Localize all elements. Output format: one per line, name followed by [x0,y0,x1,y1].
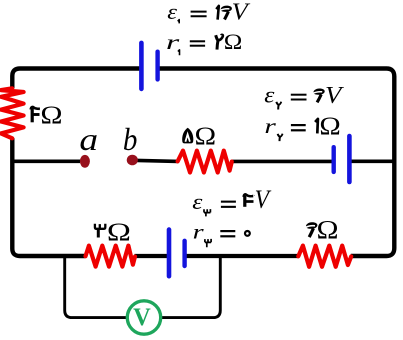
subscript 2 [278,134,280,141]
digit 3 [95,224,105,229]
digit 1 bold [315,119,318,133]
svg-text:V: V [133,304,151,331]
resistor R 4ohm (left vertical zigzag) [1,88,24,138]
label 5ohm [182,122,216,150]
svg-text:Ω: Ω [107,218,131,246]
battery E1 short plate [155,52,159,80]
label 4ohm [31,101,63,130]
svg-text:r: r [193,221,205,243]
digit 6 bold [221,6,232,12]
wire left side below 4ohm to bottom, to 3ohm [12,138,85,256]
voltmeter loop wire left [65,256,128,318]
wire top-left segment to battery E1 [12,69,141,89]
svg-text:Ω: Ω [319,111,340,139]
label epsilon2 = 6V [264,81,344,110]
svg-text:Ω: Ω [317,216,339,245]
digit 4 bold [243,196,246,207]
wire middle branch from left edge to node a [12,160,80,164]
wire bottom between 3ohm and battery E3 [135,254,170,258]
equals [190,40,205,42]
label 3ohm [95,218,131,246]
svg-text:Ω: Ω [194,122,216,150]
epsilon3 [192,191,203,215]
digit 0 ring [245,231,250,236]
epsilon1 [167,0,178,24]
r italic [264,114,277,138]
voltmeter loop wire right [161,256,221,318]
voltmeter circle [127,301,160,334]
voltmeter V letter [133,304,151,331]
svg-text:ε: ε [192,191,203,215]
svg-text:V: V [255,186,272,215]
svg-text:V: V [232,0,251,25]
node b label [123,122,138,158]
battery E1 long plate [139,43,144,89]
r italic [166,31,180,54]
epsilon2 [264,82,274,108]
svg-text:b: b [123,122,138,158]
equals [221,201,236,203]
label r3 = 0 [193,221,250,247]
subscript 3 [205,239,211,247]
r italic [193,221,205,243]
wire node b to 5ohm [137,160,178,161]
battery E2 long plate [347,136,352,182]
wire bottom between battery E3 and 6ohm [185,254,299,258]
svg-text:r: r [264,114,277,138]
battery E3 short plate [182,241,186,266]
Omega [194,122,216,150]
V italic [255,186,272,215]
subscript 2 [276,102,278,110]
node a label [79,122,98,157]
digit 1 bold [216,6,219,20]
equals [220,230,235,232]
Omega [40,101,62,130]
V italic [232,0,251,25]
digit 6 [306,222,317,229]
subscript 3 [204,209,210,216]
digit 6 bold [313,88,324,94]
subscript 1 [178,20,180,24]
svg-text:a: a [79,122,98,157]
svg-text:Ω: Ω [40,101,62,130]
equals [291,94,307,96]
equals [191,11,207,13]
label 6ohm [305,216,338,245]
battery E2 short plate [332,147,336,172]
digit 5 [182,128,193,144]
equals [291,124,306,126]
label epsilon1 = 16V [167,0,250,25]
wire 5ohm to battery E2 [231,160,333,164]
resistor 5ohm (middle horizontal zigzag) [178,151,232,173]
svg-text:ε: ε [167,0,178,24]
Omega [107,218,131,246]
resistor 6ohm (bottom right zigzag) [298,246,351,267]
node b dot [127,155,138,166]
wire battery E2 to right edge [349,160,394,164]
node a dot [80,155,90,168]
svg-text:Ω: Ω [224,30,243,55]
label epsilon3 = 4V [192,186,271,217]
subscript 1 [178,50,180,55]
Omega [224,30,243,55]
Omega [317,216,339,245]
svg-text:ε: ε [264,82,274,108]
Omega [319,111,340,139]
V italic [325,81,345,109]
digit 2 bold [216,35,218,49]
label r2 = 1ohm [264,111,340,141]
label r1 = 2ohm [166,30,242,55]
battery E3 long plate [167,230,172,277]
digit 4 [31,108,34,122]
resistor 3ohm (bottom left zigzag) [86,246,136,267]
wire top-right segment from battery E1 around right side to 6ohm [158,69,395,257]
